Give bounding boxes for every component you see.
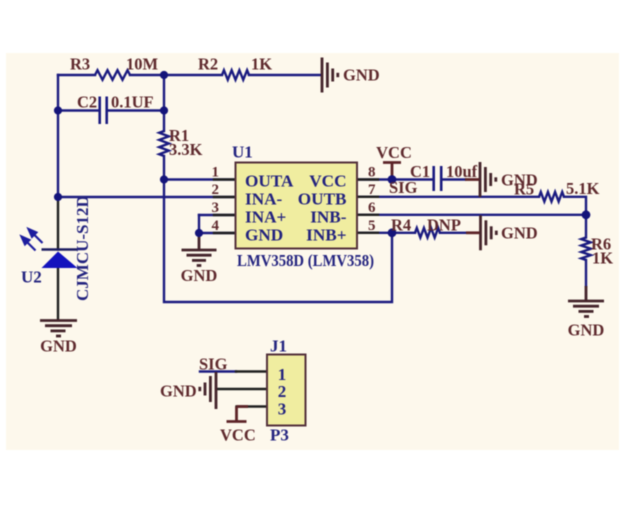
svg-text:1K: 1K [251, 55, 272, 74]
svg-text:GND: GND [40, 337, 77, 356]
svg-text:5.1K: 5.1K [566, 179, 600, 198]
svg-text:OUTA: OUTA [245, 172, 294, 191]
svg-text:3.3K: 3.3K [169, 140, 203, 159]
svg-text:DNP: DNP [427, 216, 461, 235]
svg-text:GND: GND [501, 224, 538, 243]
svg-text:5: 5 [368, 218, 376, 234]
svg-text:INA+: INA+ [245, 208, 286, 227]
svg-text:GND: GND [568, 321, 605, 340]
svg-text:VCC: VCC [376, 143, 412, 162]
svg-text:CJMCU-S12D: CJMCU-S12D [73, 195, 92, 301]
svg-text:INA-: INA- [245, 190, 283, 209]
svg-text:8: 8 [368, 165, 376, 181]
svg-text:INB-: INB- [310, 208, 347, 227]
svg-text:VCC: VCC [309, 172, 346, 191]
svg-text:10uf: 10uf [446, 162, 478, 181]
svg-text:VCC: VCC [220, 426, 256, 445]
svg-text:6: 6 [368, 200, 376, 216]
svg-text:3: 3 [278, 400, 287, 419]
svg-text:GND: GND [160, 382, 197, 401]
svg-text:C2: C2 [77, 93, 97, 112]
svg-text:2: 2 [278, 382, 287, 401]
svg-text:7: 7 [368, 182, 376, 198]
svg-text:SIG: SIG [199, 355, 228, 374]
svg-text:U2: U2 [21, 268, 42, 287]
svg-text:R2: R2 [198, 55, 218, 74]
svg-text:GND: GND [501, 171, 538, 190]
svg-text:GND: GND [343, 66, 380, 85]
svg-text:INB+: INB+ [306, 226, 346, 245]
svg-text:R3: R3 [70, 55, 90, 74]
svg-text:R4: R4 [391, 216, 411, 235]
svg-text:P3: P3 [270, 426, 289, 445]
svg-text:U1: U1 [232, 143, 253, 162]
svg-text:LMV358D (LMV358): LMV358D (LMV358) [237, 251, 374, 270]
svg-text:GND: GND [245, 226, 283, 245]
svg-text:1: 1 [212, 165, 220, 181]
svg-text:J1: J1 [270, 337, 287, 356]
svg-text:OUTB: OUTB [298, 190, 347, 209]
svg-text:10M: 10M [126, 55, 159, 74]
svg-text:4: 4 [212, 218, 220, 234]
svg-text:SIG: SIG [389, 178, 418, 197]
svg-text:2: 2 [212, 182, 220, 198]
svg-text:GND: GND [181, 266, 218, 285]
svg-text:0.1UF: 0.1UF [111, 93, 154, 112]
svg-text:1K: 1K [592, 249, 613, 268]
svg-text:3: 3 [212, 200, 220, 216]
